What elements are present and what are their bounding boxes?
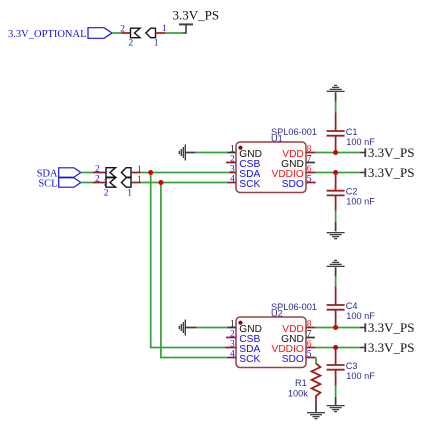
wire SDA to U2.3 <box>150 347 226 349</box>
wire VDDIO to 3.3V_PS <box>316 172 360 174</box>
ground (U1 pin 1) <box>179 145 186 161</box>
power port 3.3V_PS (U2 VDDIO) <box>360 340 415 355</box>
wire <box>196 152 228 154</box>
svg-text:3.3V_OPTIONAL: 3.3V_OPTIONAL <box>8 29 86 40</box>
pin-1 marker (U1) <box>238 146 242 150</box>
wire (C2 bottom lead) <box>335 196 337 211</box>
pin 8 stub (U2) <box>306 327 316 329</box>
wire <box>335 397 337 405</box>
pin 7 stub (U1) <box>306 162 315 164</box>
wire (C1 top lead) <box>335 112 337 131</box>
svg-text:2: 2 <box>95 165 100 175</box>
pin 1 stub <box>131 182 141 184</box>
capacitor C1 <box>327 131 345 136</box>
svg-text:3.3V_PS: 3.3V_PS <box>173 7 220 22</box>
svg-text:2: 2 <box>128 38 133 48</box>
wire (C4 top lead) <box>335 286 337 305</box>
svg-text:2: 2 <box>104 189 109 199</box>
junction (U2 VDDIO/C3) <box>333 345 338 350</box>
svg-text:SCK: SCK <box>239 354 260 365</box>
pin 6 stub (U2) <box>306 347 316 349</box>
wire (C4 bottom lead) <box>335 310 337 328</box>
svg-text:C1: C1 <box>346 127 358 137</box>
svg-text:1: 1 <box>154 38 159 48</box>
wire SCL vertical drop <box>160 183 162 359</box>
svg-text:3.3V_PS: 3.3V_PS <box>368 165 415 180</box>
capacitor C2 <box>327 191 345 196</box>
svg-text:100 nF: 100 nF <box>346 197 375 207</box>
wire <box>186 327 197 329</box>
wire VDD to 3.3V_PS (U2) <box>316 327 360 329</box>
wire <box>335 277 337 287</box>
junction (U2 VDD/C4) <box>333 325 338 330</box>
wire <box>197 327 228 329</box>
ground (below C3) <box>327 405 345 412</box>
pin 5 stub (U2) <box>306 357 316 359</box>
svg-text:1: 1 <box>137 175 142 185</box>
svg-text:R1: R1 <box>295 378 307 388</box>
wire <box>315 402 317 411</box>
svg-text:C2: C2 <box>346 187 358 197</box>
wire <box>335 386 337 397</box>
pin 8 stub (U1) <box>306 152 316 154</box>
pin 4 stub (U2) <box>228 357 237 359</box>
ground (above C4) <box>327 260 345 267</box>
wire <box>81 172 94 174</box>
connector plug half <box>106 168 116 178</box>
svg-text:SDO: SDO <box>282 179 304 190</box>
svg-text:SCL: SCL <box>38 179 57 190</box>
pin 2 stub (U1) <box>226 162 236 164</box>
wire <box>81 182 94 184</box>
wire VDDIO to 3.3V_PS (U2) <box>316 347 360 349</box>
wire <box>335 222 337 232</box>
ground (U2 pin 1) <box>179 320 186 336</box>
port SCL <box>38 178 80 190</box>
svg-text:3.3V_PS: 3.3V_PS <box>368 145 415 160</box>
wire <box>335 92 337 102</box>
power port 3.3V_PS (U1 VDDIO) <box>360 165 415 180</box>
wire <box>165 32 184 34</box>
wire (C3 bottom lead) <box>335 370 337 386</box>
wire SDA to U1.3 <box>141 172 231 174</box>
svg-text:1: 1 <box>137 165 142 175</box>
wire (C3 top lead) <box>335 348 337 366</box>
capacitor C4 <box>327 305 345 310</box>
pin 6 stub (U1) <box>306 172 316 174</box>
pin 3 stub (U1) <box>230 172 237 174</box>
wire <box>335 267 337 277</box>
junction (VDD/C1) <box>333 150 338 155</box>
svg-text:3.3V_PS: 3.3V_PS <box>368 340 415 355</box>
capacitor C3 <box>327 365 345 370</box>
ground (above C1) <box>327 85 345 92</box>
wire (C2 top lead) <box>335 173 337 191</box>
pin 2 stub (P2 plug) <box>122 32 131 34</box>
pin 3 stub (U2) <box>225 347 236 349</box>
svg-text:C4: C4 <box>346 301 358 311</box>
pin 7 stub (U2) <box>306 337 315 339</box>
wire SCL to U2.4 <box>160 357 227 359</box>
wire SCL to U1.4 <box>141 182 229 184</box>
junction (SDA) <box>148 170 153 175</box>
IC U1 body <box>236 142 306 193</box>
power port 3.3V_PS (U2 VDD) <box>360 320 415 335</box>
wire <box>186 152 196 154</box>
wire (C1 bottom lead) <box>335 136 337 153</box>
wire VDD to 3.3V_PS <box>316 152 360 154</box>
wire <box>335 102 337 113</box>
svg-text:SDO: SDO <box>282 354 304 365</box>
pin 1 stub (U2) <box>227 327 236 329</box>
connector socket half <box>121 168 131 178</box>
svg-text:C3: C3 <box>346 361 358 371</box>
pin 2 stub <box>93 182 106 184</box>
pin-1 marker (U2) <box>238 321 242 325</box>
pin 4 stub (U1) <box>228 182 237 184</box>
wire <box>335 211 337 222</box>
ground (below C2) <box>327 232 345 239</box>
svg-text:2: 2 <box>95 175 100 185</box>
IC U2 body <box>236 317 306 368</box>
junction (SCL) <box>158 180 163 185</box>
svg-text:3.3V_PS: 3.3V_PS <box>368 320 415 335</box>
power port 3.3V_PS (top) <box>173 7 220 33</box>
pin 5 stub (U1) <box>306 182 316 184</box>
svg-text:1: 1 <box>127 189 132 199</box>
wire SDO to R1 <box>315 358 317 365</box>
pin 1 stub (U1) <box>227 152 236 154</box>
connector plug half <box>131 28 141 38</box>
connector socket half <box>146 28 156 38</box>
wire <box>112 32 122 34</box>
wire (R1 bottom lead) <box>315 400 317 403</box>
pin 2 stub (U2) <box>226 337 236 339</box>
ground (below R1) <box>307 412 325 419</box>
junction (VDDIO/C2) <box>333 170 338 175</box>
port SDA <box>37 168 81 180</box>
resistor R1 <box>312 363 321 399</box>
svg-text:100 nF: 100 nF <box>346 371 375 381</box>
wire SDA vertical drop <box>150 173 152 349</box>
pin 2 stub <box>93 172 106 174</box>
svg-text:100k: 100k <box>288 388 308 398</box>
pin 1 stub (P1 socket) <box>156 32 166 34</box>
svg-text:2: 2 <box>120 25 125 35</box>
svg-text:SCK: SCK <box>239 179 260 190</box>
connector plug half <box>106 178 116 188</box>
power port 3.3V_PS (U1 VDD) <box>360 145 415 160</box>
pin 1 stub <box>131 172 141 174</box>
port 3.3V_OPTIONAL <box>8 28 112 40</box>
connector socket half <box>121 178 131 188</box>
